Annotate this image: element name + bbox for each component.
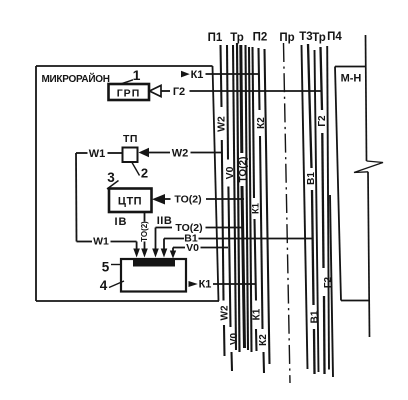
pipe В1 <box>308 44 312 168</box>
pipe ТО(2) trunk <box>241 45 242 153</box>
wire W1 upper <box>76 148 123 160</box>
pipe R1 <box>302 45 308 369</box>
block ГРП <box>109 67 150 100</box>
svg-text:1: 1 <box>133 67 141 83</box>
arrow К1 top inlet <box>181 69 260 81</box>
wire Г2 <box>190 90 323 92</box>
wire left riser <box>75 153 78 242</box>
pipe К2 continued <box>260 136 263 329</box>
pipe R6 lower <box>330 195 333 377</box>
pipe L1 <box>221 45 222 107</box>
svg-text:Тр: Тр <box>312 32 326 44</box>
node М-Н block <box>335 67 369 301</box>
wire boundary top edge <box>36 65 213 67</box>
svg-text:ТО(2): ТО(2) <box>140 221 149 242</box>
pipe L11 <box>265 49 270 364</box>
svg-text:К1: К1 <box>191 69 204 81</box>
wire leader to 1 <box>120 80 133 84</box>
labels duct headers <box>208 31 343 44</box>
svg-text:W2: W2 <box>220 305 231 320</box>
pipe R3 <box>315 50 319 372</box>
pipe К1 stub <box>255 329 258 351</box>
svg-text:ТО(2): ТО(2) <box>174 194 201 206</box>
node input bar 5 <box>102 259 175 275</box>
pipe L5 <box>237 43 240 352</box>
wire В1 feed <box>161 233 313 258</box>
wire W1 lower <box>77 236 140 258</box>
wire boundary left edge <box>35 66 37 301</box>
wire М-Н left edge <box>335 67 341 301</box>
svg-text:W1: W1 <box>89 148 106 160</box>
pipe Г2 <box>321 47 323 110</box>
wire main right line upper <box>366 35 367 161</box>
arrow К1 bottom outlet <box>189 279 256 291</box>
svg-text:Г2: Г2 <box>173 86 185 98</box>
pipe V0 continued <box>228 187 230 328</box>
pipe L7 <box>246 45 249 350</box>
svg-text:Пр: Пр <box>279 32 294 44</box>
svg-text:В1: В1 <box>310 310 321 323</box>
wire boundary right edge <box>213 66 219 301</box>
svg-text:IIВ: IIВ <box>157 215 173 227</box>
pipe R5 <box>327 46 329 370</box>
wire К1 bottom <box>213 283 256 285</box>
svg-text:ЦТП: ЦТП <box>118 196 142 208</box>
pipe Г2 continued <box>322 133 323 268</box>
block ЦТП <box>107 170 152 212</box>
node break symbol <box>354 161 383 173</box>
wire ТО(2) lower feed <box>152 222 244 258</box>
pipe Г2 stub <box>323 296 326 374</box>
svg-text:П4: П4 <box>327 31 342 43</box>
svg-text:IВ: IВ <box>115 216 128 228</box>
svg-text:3: 3 <box>107 170 115 185</box>
svg-text:К1: К1 <box>199 279 212 291</box>
block building 4 <box>100 259 186 293</box>
pipe В1 stub <box>313 329 316 374</box>
svg-text:П1: П1 <box>208 32 223 44</box>
wire leader to 5 <box>111 264 121 266</box>
wire leader to 2 <box>132 163 140 176</box>
svg-text:Т3: Т3 <box>299 31 312 43</box>
wire К1 top <box>206 73 260 75</box>
block ТП <box>123 133 149 181</box>
svg-text:К1: К1 <box>250 202 261 214</box>
arrow ТО(2) into ЦТП <box>152 194 244 206</box>
arrow W2 into ТП <box>139 148 223 160</box>
pipe V0 <box>227 45 228 160</box>
wire IВ drop from ЦТП <box>140 212 149 258</box>
svg-text:W1: W1 <box>93 236 109 248</box>
svg-text:П2: П2 <box>253 32 268 44</box>
svg-text:ТП: ТП <box>123 133 138 145</box>
svg-text:М-Н: М-Н <box>341 73 362 85</box>
pipe К2 stub <box>262 352 265 373</box>
pipe V0 stub <box>230 352 233 371</box>
svg-text:ГРП: ГРП <box>117 88 141 100</box>
wire М-Н bottom edge <box>341 300 369 302</box>
pipe Пр centerline <box>284 43 291 383</box>
svg-text:К2: К2 <box>258 334 269 346</box>
pipe W2 continued <box>222 140 224 301</box>
svg-text:Тр: Тр <box>230 32 244 44</box>
pipe L4 <box>233 45 236 350</box>
wire ТО(2) upper <box>206 198 244 200</box>
pipe К1 <box>253 47 255 198</box>
svg-text:2: 2 <box>141 166 148 181</box>
pipe W2 stub <box>223 325 226 356</box>
wire leader to 3 <box>107 181 119 190</box>
svg-text:V0: V0 <box>186 242 199 254</box>
node МИКРОРАЙОН boundary box <box>36 66 219 301</box>
svg-text:5: 5 <box>102 260 110 275</box>
wire V0 feed <box>170 242 228 259</box>
wire leader to 4 <box>109 281 124 288</box>
wire М-Н top edge <box>335 66 366 68</box>
wire boundary bottom edge <box>36 300 219 302</box>
wire W2 <box>191 152 223 154</box>
svg-text:К1: К1 <box>252 308 263 320</box>
svg-text:Г2: Г2 <box>317 115 328 127</box>
wire main right line lower <box>368 172 370 337</box>
svg-text:МИКРОРАЙОН: МИКРОРАЙОН <box>42 72 110 85</box>
pipe В1 continued <box>312 190 314 305</box>
svg-text:W2: W2 <box>216 116 228 132</box>
pipe ТО(2) trunk continued <box>242 186 245 348</box>
svg-text:W2: W2 <box>172 148 189 160</box>
pipe L8 <box>249 47 252 352</box>
pipe К2 <box>259 48 260 110</box>
svg-text:4: 4 <box>100 278 108 293</box>
arrow Г2 open into ГРП <box>150 85 323 98</box>
pipe К1 continued <box>255 219 257 301</box>
